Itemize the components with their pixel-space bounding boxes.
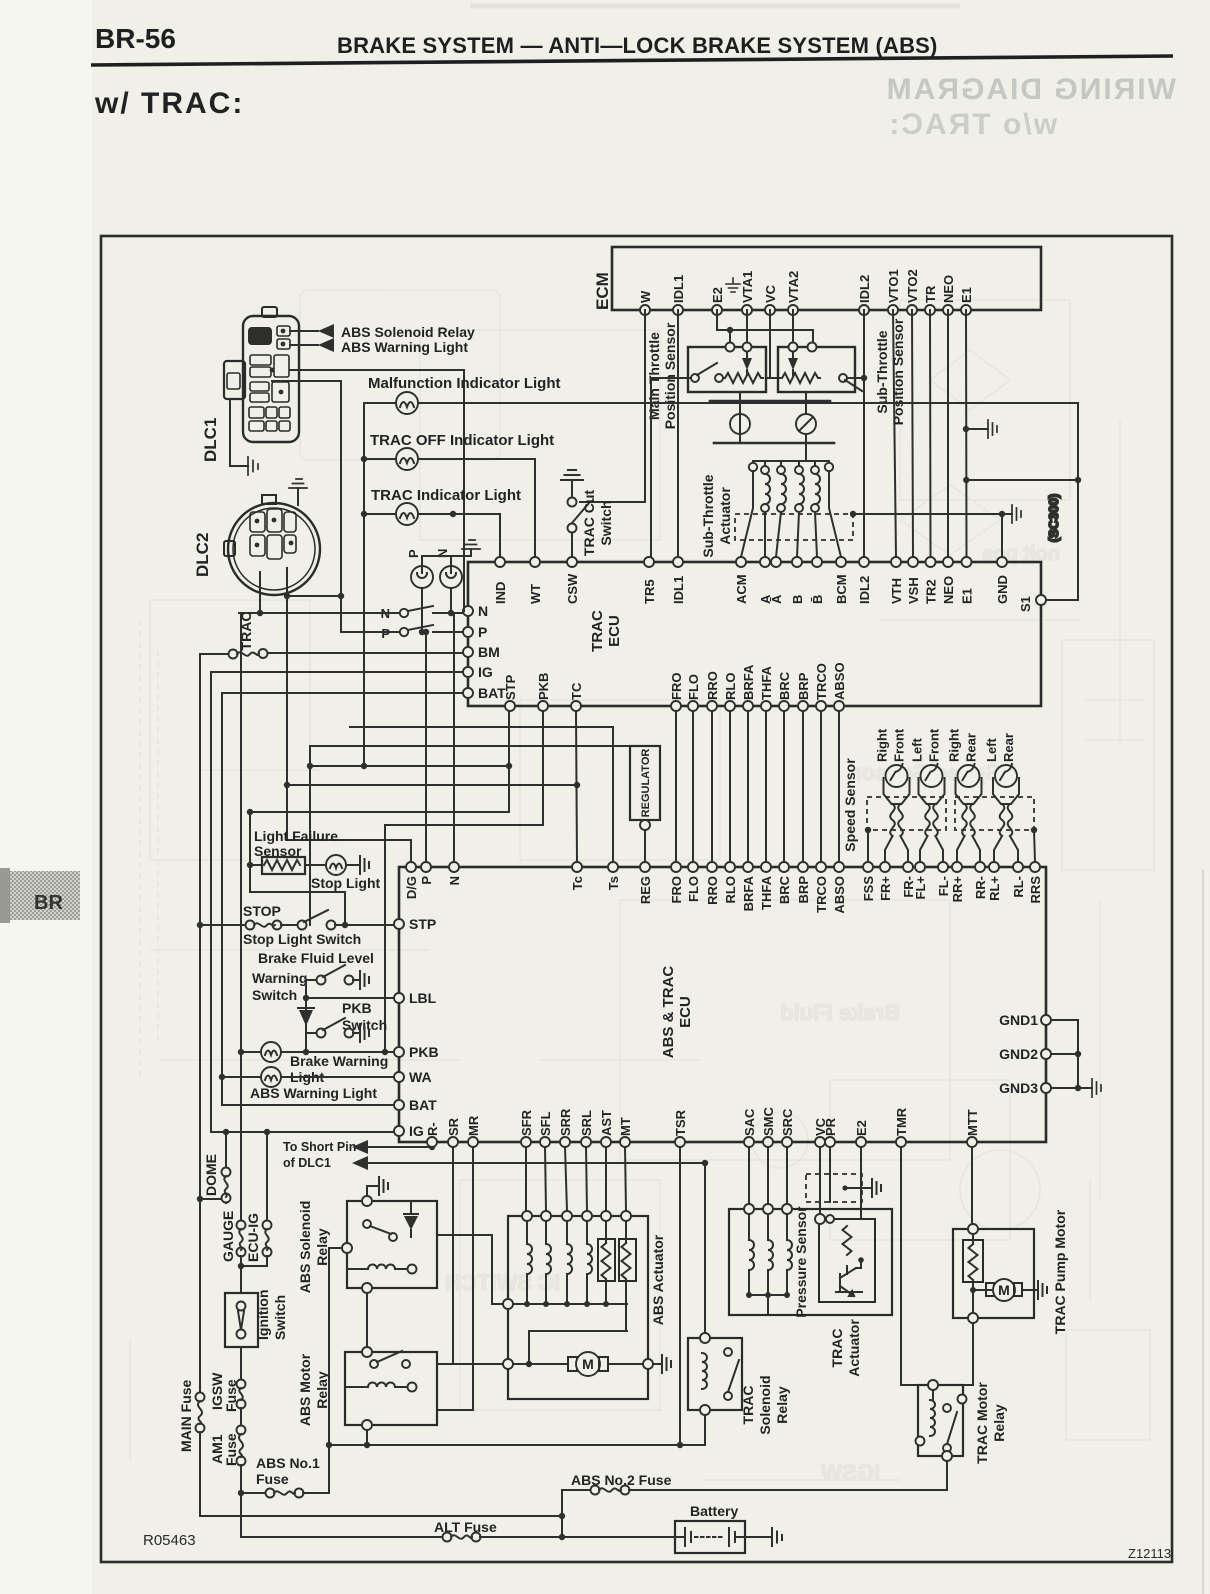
svg-text:S1: S1 <box>1018 596 1033 612</box>
TRAC ECU left pin P <box>463 624 487 640</box>
GND wire of TRAC ECU with ground <box>850 505 1021 557</box>
svg-text:FL+: FL+ <box>913 876 928 900</box>
P indicator lamp <box>406 549 433 588</box>
TRAC ECU top pin ACM <box>734 557 749 604</box>
ECM pin E1 <box>959 287 974 315</box>
ABS ECU bottom pin MR <box>466 1115 481 1147</box>
ECM pin E2 <box>710 287 725 315</box>
svg-text:BCM: BCM <box>834 574 849 604</box>
svg-text:RL-: RL- <box>1011 876 1026 898</box>
wires SAC SMC SRC <box>749 1147 787 1204</box>
svg-text:ECU: ECU <box>677 996 694 1028</box>
dashed shield box around actuator wires <box>735 514 853 540</box>
svg-text:IND: IND <box>493 582 508 604</box>
wire VTA2 <box>792 310 794 342</box>
BR chapter tab <box>0 868 80 923</box>
svg-text:RRO: RRO <box>705 671 720 700</box>
ABS ECU left pin LBL <box>394 990 437 1006</box>
svg-text:R-: R- <box>425 1122 440 1136</box>
FSS wire <box>865 827 871 862</box>
svg-text:TMR: TMR <box>894 1107 909 1136</box>
wire IG row <box>211 671 463 673</box>
wire TC to Tc <box>574 711 580 862</box>
svg-text:B: B <box>790 595 805 604</box>
svg-text:SRL: SRL <box>579 1110 594 1136</box>
svg-text:Solenoid: Solenoid <box>757 1375 773 1434</box>
svg-text:ACM: ACM <box>734 574 749 604</box>
svg-text:P: P <box>419 876 434 885</box>
svg-text:Position Sensor: Position Sensor <box>890 318 906 425</box>
wire VTO1-VTH <box>893 310 896 557</box>
wire IG row to ECU <box>211 1129 394 1135</box>
svg-text:SRR: SRR <box>558 1108 573 1136</box>
svg-text:WT: WT <box>528 584 543 604</box>
svg-text:IDL2: IDL2 <box>857 576 872 604</box>
svg-text:ABS Warning Light: ABS Warning Light <box>341 339 468 355</box>
arrow to ABS Warning Light text <box>290 338 468 355</box>
svg-text:Ā: Ā <box>769 594 784 604</box>
svg-text:TSR: TSR <box>673 1109 688 1136</box>
Ignition Switch SW1 <box>225 1289 288 1347</box>
ABS ECU bottom pin SR <box>446 1117 461 1147</box>
svg-text:w/ TRAC:: w/ TRAC: <box>94 87 244 120</box>
TRAC ECU pin S1 <box>1018 595 1046 612</box>
svg-text:Front: Front <box>892 728 907 762</box>
svg-text:TRCO: TRCO <box>814 663 829 700</box>
svg-text:VTA2: VTA2 <box>786 271 801 303</box>
TRAC ECU top pin TR2 <box>924 557 939 604</box>
GND2 pin <box>999 1046 1051 1062</box>
svg-text:VTO2: VTO2 <box>905 269 920 303</box>
wires DLC2 bottom <box>257 568 344 632</box>
svg-text:Actuator: Actuator <box>717 487 733 545</box>
ground above P/N lamps <box>422 540 480 566</box>
wire TMR <box>901 1147 928 1385</box>
speed sensor Right Rear <box>947 728 982 862</box>
wire PKB TRAC routing <box>382 711 543 1055</box>
N switch <box>239 606 463 621</box>
svg-text:SFR: SFR <box>519 1109 534 1136</box>
ground at ECM E2 <box>726 278 740 292</box>
ground above DLC2 <box>289 479 307 505</box>
svg-text:VSH: VSH <box>906 577 921 604</box>
arrow to ABS Solenoid Relay text <box>290 324 475 340</box>
ABS ECU left pin BAT <box>394 1097 437 1113</box>
svg-text:IC SWITCH: IC SWITCH <box>445 1270 560 1295</box>
wire N feed <box>453 613 455 862</box>
svg-text:E1: E1 <box>960 588 975 604</box>
REGULATOR <box>630 746 660 862</box>
svg-text:E2: E2 <box>854 1120 869 1136</box>
svg-text:TRAC: TRAC <box>589 610 606 652</box>
ECM pin VTO2 <box>905 269 920 315</box>
svg-text:ABS Warning Light: ABS Warning Light <box>250 1085 377 1101</box>
DLC1 connector <box>201 307 299 462</box>
ALT fuse <box>241 1519 675 1542</box>
svg-text:CSW: CSW <box>565 573 580 604</box>
wire P feed <box>423 629 429 862</box>
ECM pin VTA1 <box>740 271 755 315</box>
TRAC ECU left pin N <box>463 603 488 619</box>
Stop Light lamp <box>311 855 381 891</box>
Sub-Throttle Actuator coils <box>700 461 841 558</box>
ABS & TRAC ECU box U3 <box>399 867 1046 1142</box>
wire IDL2 ECM to TRAC ECU <box>861 310 867 557</box>
wire VTO2-VSH <box>912 310 913 557</box>
GAUGE fuse <box>220 1211 246 1266</box>
left lamp bus wire <box>361 403 367 769</box>
TRAC ECU bottom pin BRP <box>796 672 811 711</box>
long left bus wire 2 <box>210 672 212 1132</box>
TRAC ECU left pin BM <box>463 644 500 660</box>
svg-text:TR5: TR5 <box>642 579 657 604</box>
svg-text:Switch: Switch <box>252 987 297 1003</box>
svg-text:GND3: GND3 <box>999 1080 1038 1096</box>
svg-text:IG: IG <box>409 1123 424 1139</box>
TRAC ECU bottom pin TC <box>569 682 584 711</box>
svg-text:Ts: Ts <box>606 876 621 890</box>
svg-text:MT: MT <box>618 1117 633 1136</box>
GND1 pin <box>999 1012 1051 1028</box>
wire Ts feed <box>350 727 613 862</box>
svg-text:TR: TR <box>923 285 938 303</box>
svg-text:RRS: RRS <box>1028 876 1043 904</box>
svg-text:SMC: SMC <box>761 1107 776 1137</box>
ABS ECU top pin FL+ <box>913 862 928 899</box>
svg-text:IDL1: IDL1 <box>671 275 686 303</box>
svg-text:RRO: RRO <box>705 876 720 905</box>
svg-text:TR2: TR2 <box>924 579 939 604</box>
svg-text:IDL2: IDL2 <box>857 275 872 303</box>
svg-text:TRAC Cut: TRAC Cut <box>581 490 597 556</box>
ABS ECU bottom pin TSR <box>673 1109 688 1147</box>
ground at DLC1 <box>230 399 258 475</box>
TRAC ECU top pin GND <box>995 557 1010 604</box>
page header <box>91 23 1173 120</box>
wire MTT to pump <box>971 1147 973 1224</box>
svg-text:GND: GND <box>995 575 1010 604</box>
svg-text:BR-56: BR-56 <box>95 23 176 54</box>
svg-text:PKB: PKB <box>342 1000 372 1016</box>
svg-text:NEO: NEO <box>941 275 956 303</box>
TRAC ECU top pin B&#772; <box>810 557 825 604</box>
ABS pump motor M1 <box>503 1352 671 1376</box>
wire to ignition switch <box>240 1266 242 1293</box>
wire relay to ABS actuator <box>437 1235 503 1304</box>
svg-text:B̄: B̄ <box>810 595 825 604</box>
ABS ECU bottom pin AST <box>599 1110 614 1147</box>
svg-text:THFA: THFA <box>759 875 774 910</box>
ECM pin IDL2 <box>857 275 872 315</box>
ABS ECU top pin BRC <box>777 862 792 904</box>
svg-text:TC: TC <box>569 682 584 700</box>
ABS ECU bottom pin SRC <box>780 1108 795 1147</box>
svg-text:STP: STP <box>503 674 518 700</box>
ABS ECU top pin RR+ <box>950 862 965 902</box>
wire E1 with ground branches <box>963 310 997 557</box>
svg-text:ECM: ECM <box>593 272 612 310</box>
svg-text:BR: BR <box>34 892 63 914</box>
ABS ECU bottom pin SRL <box>579 1110 594 1147</box>
ABS ECU bottom pin SFL <box>538 1111 553 1147</box>
svg-text:M: M <box>582 1356 594 1372</box>
TRAC ECU left pin BAT <box>463 685 506 701</box>
N indicator lamp <box>435 549 462 588</box>
wire VTA1 <box>746 310 748 342</box>
svg-text:BRP: BRP <box>796 876 811 904</box>
svg-text:BRAKE SYSTEM — ANTI—LOCK BRAKE: BRAKE SYSTEM — ANTI—LOCK BRAKE SYSTEM (A… <box>337 33 938 58</box>
svg-text:BRP: BRP <box>796 672 811 700</box>
To Short Pin of DLC1 <box>283 1140 708 1170</box>
svg-text:DLC1: DLC1 <box>201 418 220 462</box>
ABS ECU bottom pin SMC <box>761 1107 776 1148</box>
bottom bus wire y1445 <box>329 1442 705 1448</box>
ABS ECU left pin WA <box>394 1069 432 1085</box>
TRAC ECU top pin VTH <box>889 557 904 604</box>
ABS ECU left pin PKB <box>394 1044 439 1060</box>
ABS ECU bottom pin SRR <box>558 1108 573 1147</box>
svg-text:Relay: Relay <box>314 1371 330 1409</box>
svg-text:FRO: FRO <box>669 673 684 700</box>
wire MR to relay <box>437 1147 473 1410</box>
ABS ECU bottom pin SFR <box>519 1109 534 1147</box>
wire BAT row <box>222 692 463 694</box>
svg-text:FR+: FR+ <box>878 876 893 901</box>
svg-text:E1: E1 <box>959 287 974 303</box>
svg-text:IGSW: IGSW <box>821 1460 880 1485</box>
svg-text:FL-: FL- <box>936 876 951 896</box>
svg-text:GND2: GND2 <box>999 1046 1038 1062</box>
svg-text:ABS & TRAC: ABS & TRAC <box>660 966 677 1059</box>
svg-text:REGULATOR: REGULATOR <box>640 749 652 818</box>
ABS ECU bottom pin MT <box>618 1117 633 1147</box>
ABS Motor Relay RY2 <box>297 1347 437 1448</box>
svg-text:E2: E2 <box>710 287 725 303</box>
dashed shield box front sensors <box>867 797 946 830</box>
wires lamps to N/P switch rows <box>419 588 454 635</box>
ABS ECU bottom pin E2 <box>854 1120 869 1147</box>
svg-text:MTT: MTT <box>965 1109 980 1136</box>
IGSW fuse <box>209 1347 246 1412</box>
svg-text:BRFA: BRFA <box>741 664 756 700</box>
svg-text:RR-: RR- <box>973 876 988 899</box>
dashed shield box rear sensors <box>955 797 1034 830</box>
svg-text:N: N <box>478 603 488 619</box>
wire E2 to sensors <box>717 310 813 342</box>
svg-text:MR: MR <box>466 1115 481 1136</box>
TRAC ECU bottom pin BRFA <box>741 664 756 711</box>
svg-text:SR: SR <box>446 1117 461 1136</box>
svg-text:Pressure Sensor: Pressure Sensor <box>793 1206 809 1318</box>
svg-text:DLC2: DLC2 <box>193 533 212 577</box>
DOME fuse <box>200 1132 231 1203</box>
wire LFS to STP <box>250 892 348 928</box>
TRAC ECU top pin IDL2 <box>857 557 872 604</box>
Stop Light Switch <box>243 910 394 947</box>
svg-text:ABS No.2 Fuse: ABS No.2 Fuse <box>571 1472 672 1488</box>
svg-text:P: P <box>478 624 487 640</box>
wire PKB row <box>241 1049 394 1055</box>
throttle clutch plates and motors <box>710 392 834 461</box>
svg-text:Switch: Switch <box>598 500 614 545</box>
svg-text:Front: Front <box>927 728 942 762</box>
TRAC Solenoid Relay RY3 <box>688 1333 790 1445</box>
TRAC ECU top pin B <box>790 557 805 604</box>
TRAC ECU bottom pin FRO <box>669 673 684 711</box>
TRAC Motor Relay RY4 <box>901 1380 1007 1490</box>
wire MTPS switch to TR5 <box>651 378 691 557</box>
wire DLC1 to N line <box>290 370 464 611</box>
ABS ECU top pin TRCO <box>814 862 829 913</box>
TRAC to ABS vertical wires FRO-ABSO <box>676 711 839 862</box>
svg-text:STOP: STOP <box>243 903 281 919</box>
svg-text:BRC: BRC <box>777 875 792 904</box>
wire LBL <box>303 995 394 1001</box>
svg-text:SFL: SFL <box>538 1111 553 1136</box>
ghost bleed-through shapes (decorative) <box>130 73 1176 1485</box>
ABS ECU bottom pin VC <box>813 1117 828 1147</box>
ABS ECU top pin FSS <box>861 862 876 901</box>
GND wires and ground <box>1051 1020 1101 1097</box>
TRAC ECU bottom pin RRO <box>705 671 720 711</box>
wire DLC1 down leg <box>272 381 341 596</box>
svg-text:Rear: Rear <box>1001 733 1016 762</box>
svg-text:RL+: RL+ <box>987 876 1002 901</box>
svg-text:AST: AST <box>599 1110 614 1136</box>
svg-text:Right: Right <box>947 728 962 762</box>
svg-text:Position Sensor: Position Sensor <box>662 322 678 429</box>
wire NEO-NEO <box>947 310 949 557</box>
svg-text:Sub-Throttle: Sub-Throttle <box>874 330 890 413</box>
svg-text:FLO: FLO <box>686 674 701 700</box>
svg-text:FSS: FSS <box>861 876 876 902</box>
wire R- bus to TRAC solenoid relay <box>704 1163 706 1338</box>
svg-text:M: M <box>998 1282 1010 1298</box>
wire VC <box>766 310 778 378</box>
ABS ECU top pin REG <box>638 862 653 904</box>
svg-text:MAIN Fuse: MAIN Fuse <box>178 1379 194 1452</box>
TRAC ECU bottom pin TRCO <box>814 663 829 711</box>
ABS ECU top pin THFA <box>759 862 774 910</box>
TRAC ECU bottom pin BRC <box>777 671 792 711</box>
ECM pin VC <box>763 284 778 315</box>
ABS ECU top pin BRP <box>796 862 811 903</box>
TRAC ECU top pin A&#772; <box>769 557 784 604</box>
svg-text:Switch: Switch <box>272 1295 288 1340</box>
STOP fuse <box>200 903 282 930</box>
svg-text:ABS Actuator: ABS Actuator <box>650 1234 666 1325</box>
Brake Warning Light L4 <box>261 1042 388 1085</box>
wire TR-TR2 <box>929 310 932 557</box>
wire regulator feed <box>307 746 630 925</box>
ABS ECU bottom pin R- <box>425 1122 440 1147</box>
AM1 fuse <box>209 1408 246 1537</box>
svg-text:VTH: VTH <box>889 578 904 604</box>
ABS Actuator <box>503 1211 666 1399</box>
wires VC PR E2 <box>820 1147 861 1219</box>
svg-text:N: N <box>447 876 462 885</box>
TRAC ECU top pin CSW <box>565 557 580 604</box>
svg-text:ABSO: ABSO <box>832 662 847 700</box>
ABS ECU top pin FLO <box>686 862 701 902</box>
ECM pin VTA2 <box>786 271 801 315</box>
ABS ECU top pin FR- <box>901 862 916 898</box>
TRAC ECU top pin TR5 <box>642 557 657 604</box>
svg-text:Stop Light Switch: Stop Light Switch <box>243 931 361 947</box>
ECM pin IDL1 <box>671 275 686 315</box>
svg-text:Light Failure: Light Failure <box>254 828 338 844</box>
svg-text:Relay: Relay <box>991 1404 1007 1442</box>
Main Throttle Position Sensor U-MTPS <box>646 322 766 429</box>
svg-text:PR: PR <box>823 1117 838 1136</box>
svg-text:FLO: FLO <box>686 876 701 902</box>
svg-text:ALT Fuse: ALT Fuse <box>434 1519 497 1535</box>
TRAC ECU top pin BCM <box>834 557 849 604</box>
svg-text:Main Throttle: Main Throttle <box>646 332 662 420</box>
svg-text:w/o TRAC:: w/o TRAC: <box>887 108 1058 141</box>
svg-text:ABS Solenoid: ABS Solenoid <box>297 1201 313 1294</box>
ABS ECU top pin RRO <box>705 862 720 905</box>
svg-text:Rear: Rear <box>964 733 979 762</box>
svg-text:IG: IG <box>478 664 493 680</box>
TRAC ECU bottom pin ABSO <box>832 662 847 711</box>
svg-text:TRAC Motor: TRAC Motor <box>974 1382 990 1464</box>
ABS ECU top pin BRFA <box>741 862 756 911</box>
svg-text:Fuse: Fuse <box>256 1471 289 1487</box>
ABS ECU top pin D/G <box>404 862 419 899</box>
svg-text:GAUGE: GAUGE <box>220 1211 236 1262</box>
svg-text:REG: REG <box>638 876 653 904</box>
svg-text:BAT: BAT <box>409 1097 437 1113</box>
vertical link fuse lines <box>559 1490 565 1537</box>
svg-text:ABSO: ABSO <box>832 876 847 914</box>
ABS ECU bottom pin MTT <box>965 1109 980 1147</box>
ABS ECU top pin Tc <box>570 862 585 890</box>
ABS Solenoid Relay RY1 <box>297 1177 437 1448</box>
svg-text:To Short Pin: To Short Pin <box>283 1140 356 1154</box>
svg-text:WIRING DIAGRAM: WIRING DIAGRAM <box>885 73 1176 106</box>
svg-text:Relay: Relay <box>774 1386 790 1424</box>
svg-text:ECU: ECU <box>606 615 623 647</box>
svg-text:ABS Solenoid Relay: ABS Solenoid Relay <box>341 324 475 340</box>
speed sensor Left Front <box>910 728 945 862</box>
ABS ECU top pin FR+ <box>878 862 893 901</box>
svg-text:SRC: SRC <box>780 1108 795 1136</box>
svg-text:Brake Fluid Level: Brake Fluid Level <box>258 950 374 966</box>
svg-text:ECU-IG: ECU-IG <box>245 1213 261 1262</box>
ABS No.1 fuse <box>241 1445 329 1498</box>
svg-text:(SC300): (SC300) <box>1046 494 1061 542</box>
TRAC ECU bottom pin RLO <box>723 673 738 711</box>
MAIN fuse <box>178 1199 562 1516</box>
svg-text:W: W <box>638 290 653 303</box>
svg-text:D/G: D/G <box>404 876 419 899</box>
speed sensor Left Rear <box>984 733 1019 862</box>
TRAC ECU box U2 <box>468 562 1041 706</box>
TRAC ECU top pin IDL1 <box>671 557 686 604</box>
ABS ECU top pin ABSO <box>832 862 847 914</box>
svg-text:ABS No.1: ABS No.1 <box>256 1455 320 1471</box>
Battery B1 <box>675 1503 782 1553</box>
svg-text:LBL: LBL <box>409 990 437 1006</box>
svg-text:WA: WA <box>409 1069 432 1085</box>
ABS ECU top pin RR- <box>973 862 988 899</box>
wires SFR-MT into ABS actuator <box>526 1147 626 1211</box>
svg-text:Z12113: Z12113 <box>1128 1546 1171 1561</box>
svg-text:BM: BM <box>478 644 500 660</box>
svg-text:Sub-Throttle: Sub-Throttle <box>700 474 716 557</box>
GND3 pin <box>999 1080 1051 1096</box>
